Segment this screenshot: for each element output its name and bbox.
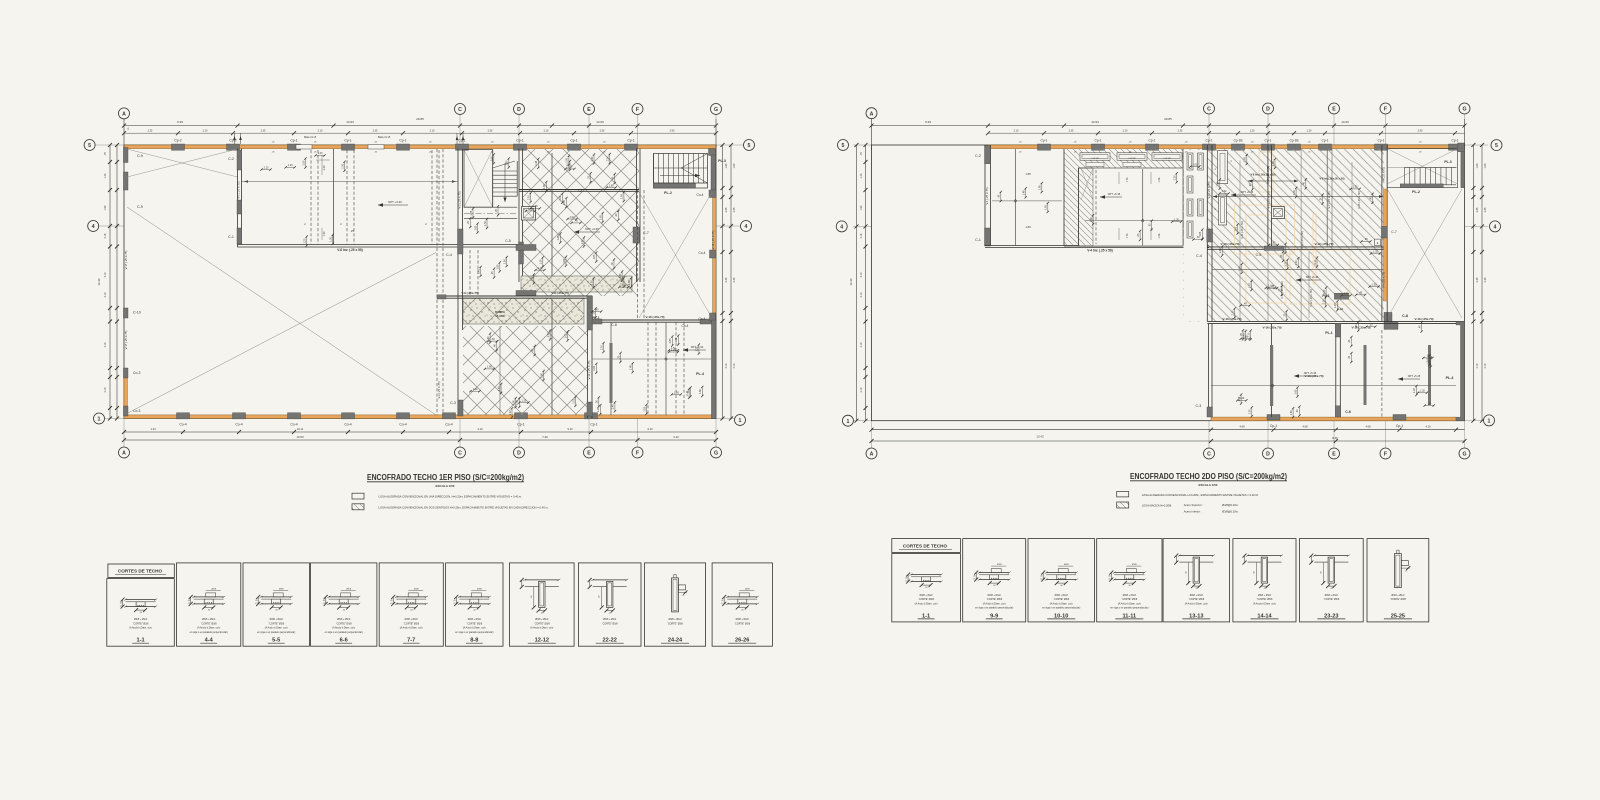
dimension clutter left plan middle [497,206,499,215]
svg-text:1.80: 1.80 [1476,163,1479,168]
svg-text:Cp-1: Cp-1 [1396,424,1403,428]
svg-text:.30: .30 [592,311,595,315]
svg-text:.40: .40 [532,348,535,352]
svg-text:1.02: 1.02 [1373,250,1378,253]
svg-text:(A Anclo b.Diam. cu/u: (A Anclo b.Diam. cu/u [265,627,289,630]
svg-text:23-23: 23-23 [1324,613,1338,619]
svg-text:.60: .60 [1254,571,1256,574]
svg-text:1.65: 1.65 [533,205,538,208]
right dimension lines [722,145,724,419]
svg-text:.30: .30 [1149,223,1152,227]
svg-text:.40: .40 [1296,409,1299,413]
left plan: ENCOFRADO TECHO 1ER PISO [95,115,745,448]
svg-text:Cp-1B: Cp-1B [1289,139,1298,143]
svg-text:C-2: C-2 [228,157,234,161]
svg-text:(A Anclo b.Diam. cu/u: (A Anclo b.Diam. cu/u [1253,602,1277,605]
svg-text:1.43: 1.43 [104,173,107,178]
svg-text:.40: .40 [1280,254,1283,258]
svg-text:.30: .30 [473,609,476,611]
svg-text:Cp-1: Cp-1 [1095,139,1102,143]
svg-text:25-25: 25-25 [1391,613,1405,619]
room bottom beam V-8 [238,244,521,246]
svg-text:2.90: 2.90 [670,129,675,132]
svg-text:1.02: 1.02 [1282,245,1285,250]
wall E x589 [587,296,589,418]
svg-text:1.20: 1.20 [1334,303,1337,308]
detail box 11-11 [1097,539,1162,622]
svg-text:1.48: 1.48 [612,404,615,409]
svg-text:1.80: 1.80 [543,183,546,188]
detail box 1-1 [107,579,175,647]
svg-text:1.48: 1.48 [1272,161,1275,166]
grid bubbles bottom (right plan) [866,448,877,459]
column Co-3 bottom [123,406,128,416]
room center joist line [333,149,335,244]
svg-text:26-26: 26-26 [735,638,749,644]
svg-text:Cp-1B: Cp-1B [1233,139,1242,143]
svg-text:A: A [122,112,126,118]
svg-text:1.50: 1.50 [1372,283,1377,286]
svg-text:.60: .60 [1320,571,1322,574]
svg-text:5: 5 [748,143,751,149]
svg-text:D: D [517,107,521,113]
svg-text:“CORTE” Ø3/8: “CORTE” Ø3/8 [1053,598,1069,601]
svg-text:“CORTE” Ø3/8: “CORTE” Ø3/8 [1323,598,1339,601]
svg-text:1.80: 1.80 [1484,163,1487,168]
svg-text:1.50: 1.50 [1323,289,1326,294]
svg-text:.30: .30 [491,338,495,341]
detail box 23-23 [1300,539,1364,622]
svg-text:2.10: 2.10 [1323,299,1326,304]
svg-text:V-7 (.25 X.75): V-7 (.25 X.75) [1327,191,1331,208]
beam top orange right plan [988,145,1458,149]
svg-text:.25: .25 [467,220,470,224]
svg-text:1.65: 1.65 [470,210,473,215]
svg-text:V-4 Inv. (.25 x 50): V-4 Inv. (.25 x 50) [1087,249,1112,253]
grid bubbles left (right plan) [838,140,849,151]
slab speckled band upper [521,276,632,292]
svg-text:PL-3: PL-3 [1444,160,1451,164]
column C-8 L-shape [1384,312,1398,329]
svg-text:2.10: 2.10 [600,344,603,349]
joist center line mid hatch [551,153,553,282]
svg-text:D: D [517,451,521,457]
detail box 13-13 [1163,539,1230,622]
svg-text:1.65: 1.65 [474,225,477,230]
svg-text:1.50: 1.50 [323,231,326,236]
svg-text:V-1 (.25 X.75): V-1 (.25 X.75) [985,187,989,204]
svg-text:2.05: 2.05 [733,207,736,212]
svg-text:E: E [1332,107,1336,113]
svg-text:Co-4: Co-4 [399,423,406,427]
svg-text:1.50: 1.50 [1293,189,1296,194]
svg-text:V-15 (.25 x .50): V-15 (.25 x .50) [1357,191,1361,209]
grid stem lines right plan [871,115,873,146]
slab hatch zone D (top band) [1064,149,1183,168]
stair landing bar right plan [1400,184,1443,188]
svg-text:1.26: 1.26 [1158,177,1161,182]
svg-text:15.35%: 15.35% [495,314,505,318]
svg-text:LOSA ALIGERADA CONVENCIONAL EN: LOSA ALIGERADA CONVENCIONAL EN UNA DIREC… [379,494,523,498]
wall C right plan [1206,145,1208,321]
svg-text:CORTES DE TECHO: CORTES DE TECHO [903,544,948,549]
svg-text:Ø3/8: Ø3/8 [414,588,420,590]
svg-text:PL-1: PL-1 [1325,331,1332,335]
svg-text:.05: .05 [187,600,190,602]
svg-text:D: D [1266,452,1270,458]
svg-text:Cp-1: Cp-1 [570,139,577,143]
left dimension lines right plan [856,145,858,421]
detail box 1-1 [892,554,961,622]
svg-text:5: 5 [88,143,91,149]
secondary beam line right plan [1212,268,1384,270]
svg-text:.15: .15 [187,603,190,605]
stair PL-2 top right [654,154,708,189]
svg-text:NPT +3.30: NPT +3.30 [585,227,599,231]
svg-text:PL-4: PL-4 [696,372,704,376]
svg-text:C: C [458,451,462,457]
schedule boxes inside hatch [1218,151,1228,184]
svg-text:.05: .05 [1040,576,1043,578]
svg-text:Ø3/8 + Ø1/2: Ø3/8 + Ø1/2 [1123,594,1137,597]
svg-text:1.80: 1.80 [1290,410,1293,415]
svg-text:.30: .30 [611,262,614,266]
detail box 22-22 [578,563,641,646]
svg-text:2.10: 2.10 [1174,175,1177,180]
svg-text:1.80: 1.80 [1090,217,1093,222]
svg-text:1.80: 1.80 [1039,185,1042,190]
room A center line [1014,149,1016,246]
svg-text:C-6: C-6 [1345,410,1351,414]
svg-text:Co-4: Co-4 [445,423,452,427]
svg-text:1.02: 1.02 [1192,163,1197,166]
svg-text:NPT +3.30: NPT +3.30 [388,200,402,204]
svg-text:.40: .40 [612,176,615,180]
svg-text:.05: .05 [1108,576,1111,578]
svg-text:.25: .25 [350,229,354,233]
outer boundary right plan [872,145,1465,421]
bottom dimension lines right plan [872,429,1465,431]
svg-text:Co-4: Co-4 [179,423,186,427]
svg-text:.05: .05 [119,603,122,605]
svg-text:V-13 (.25 X.75): V-13 (.25 X.75) [587,361,591,380]
svg-text:F: F [1384,107,1387,113]
svg-text:1.43: 1.43 [860,173,863,178]
svg-text:4: 4 [1494,225,1497,231]
detail box 8-8 [446,563,503,646]
white schedule boxes in hatch band [1080,153,1110,160]
svg-text:1: 1 [739,418,742,424]
svg-text:.15: .15 [1108,579,1111,581]
svg-text:.30: .30 [1128,585,1131,587]
svg-text:1.80: 1.80 [619,273,622,278]
svg-text:1.20: 1.20 [567,166,572,169]
svg-text:V-6 (.25 X.75): V-6 (.25 X.75) [1267,191,1271,208]
svg-text:1.50: 1.50 [674,391,679,394]
svg-text:V-5 (.25 X.75): V-5 (.25 X.75) [1207,181,1211,198]
svg-text:PL-3: PL-3 [718,159,726,163]
svg-text:2.10: 2.10 [264,166,269,169]
svg-text:Ø3/8: Ø3/8 [997,564,1003,566]
dashed partition x 437 [436,149,438,415]
svg-text:(A Anclo b.Diam. cu/u: (A Anclo b.Diam. cu/u [400,627,424,630]
svg-text:en viga o en paralelo perpendi: en viga o en paralelo perpendicular) [1110,607,1148,610]
svg-text:Cp-1: Cp-1 [290,139,297,143]
svg-text:1.20: 1.20 [1413,387,1416,392]
svg-text:1.20: 1.20 [318,152,323,155]
svg-text:Cp-2: Cp-2 [174,139,181,143]
svg-text:.25: .25 [1240,332,1243,336]
svg-text:.30: .30 [993,585,996,587]
grid bubbles top (right plan) [866,108,877,119]
svg-text:C-8: C-8 [611,323,617,327]
svg-text:Cp-1: Cp-1 [1378,139,1385,143]
svg-text:(A Anclo b.Diam. cu/u: (A Anclo b.Diam. cu/u [463,627,487,630]
svg-text:1.02: 1.02 [509,410,512,415]
svg-text:.60: .60 [531,596,533,599]
dashed joists mid strip [469,250,471,296]
slab cross-hatch lower middle [463,326,588,415]
svg-text:en viga o en paralelo perpendi: en viga o en paralelo perpendicular) [455,631,493,634]
svg-text:2.16: 2.16 [104,233,107,238]
svg-text:2.25: 2.25 [148,129,153,132]
svg-text:A: A [122,451,126,457]
svg-text:“CORTE” Ø3/8: “CORTE” Ø3/8 [918,598,934,601]
svg-text:1.50: 1.50 [491,156,494,161]
svg-text:14.60: 14.60 [1341,120,1349,124]
svg-text:LOSA MACIZA H=0.20M.: LOSA MACIZA H=0.20M. [1142,504,1172,508]
svg-text:1.20: 1.20 [304,238,307,243]
svg-text:Co-4: Co-4 [344,423,351,427]
svg-text:4.10: 4.10 [733,363,736,368]
svg-text:2.10: 2.10 [1014,129,1019,132]
svg-text:.15: .15 [322,603,325,605]
svg-text:Cp-1: Cp-1 [627,139,634,143]
svg-text:Co-4: Co-4 [699,251,706,255]
svg-text:1.65: 1.65 [498,385,501,390]
svg-text:2.10: 2.10 [318,129,323,132]
orange wall segment left edge [124,377,127,408]
svg-text:1.50: 1.50 [1239,265,1242,270]
svg-text:4: 4 [840,225,843,231]
svg-text:1 Ø 3/8: 1 Ø 3/8 [1128,158,1136,160]
svg-text:1.80: 1.80 [487,366,492,369]
svg-text:1.65: 1.65 [621,193,624,198]
svg-text:Ø3/8 + Ø1/2: Ø3/8 + Ø1/2 [1190,594,1204,597]
svg-text:(A Anclo b.Diam. cu/u: (A Anclo b.Diam. cu/u [1185,602,1209,605]
svg-text:Cp-1: Cp-1 [1452,139,1459,143]
svg-text:2.10: 2.10 [686,390,689,395]
svg-text:1.50: 1.50 [302,160,305,165]
svg-text:PL-2: PL-2 [664,191,672,195]
beam Vch top (orange) [124,145,716,149]
svg-text:2.10: 2.10 [527,194,530,199]
svg-text:D: D [1266,107,1270,113]
svg-text:.60: .60 [1185,571,1187,574]
svg-text:.25: .25 [608,612,611,614]
beam across y321 right plan [1207,320,1464,322]
svg-text:Ø3/8: Ø3/8 [477,588,483,590]
svg-text:.15: .15 [453,603,456,605]
empty-zone cross big left area [127,207,436,415]
landing line below stair [464,206,517,208]
svg-text:14.60: 14.60 [596,120,604,124]
stair landing beam [654,184,696,189]
svg-text:.30: .30 [410,609,413,611]
svg-text:.30: .30 [1060,585,1063,587]
svg-text:F: F [1384,452,1387,458]
svg-text:NPT +5.45: NPT +5.45 [1306,275,1319,279]
svg-text:1.65: 1.65 [669,338,672,343]
svg-text:.40: .40 [1359,292,1363,295]
svg-text:24-24: 24-24 [668,638,683,644]
svg-text:14.93: 14.93 [346,120,354,124]
svg-text:1.20: 1.20 [521,399,526,402]
svg-text:1.80: 1.80 [628,279,631,284]
svg-text:1.80: 1.80 [563,258,566,263]
svg-text:V-14 (.25 x .50): V-14 (.25 x .50) [1300,231,1304,249]
svg-text:1.80: 1.80 [725,163,728,168]
svg-text:29.85: 29.85 [1164,117,1172,121]
legend right: losa maciza [1117,502,1129,508]
svg-text:1.65: 1.65 [593,365,596,370]
riser arrows at wall tops [234,133,236,144]
svg-text:.05: .05 [453,600,456,602]
svg-text:1: 1 [1488,419,1491,425]
svg-text:1.65: 1.65 [497,264,500,269]
svg-text:.15: .15 [721,603,724,605]
svg-text:.30: .30 [925,587,928,589]
svg-text:1.80: 1.80 [609,184,614,187]
svg-text:1.50: 1.50 [540,259,543,264]
svg-text:10.11: 10.11 [297,427,304,431]
svg-text:Ø3/8 + Ø1/2: Ø3/8 + Ø1/2 [337,618,351,621]
svg-text:NPT +6.35: NPT +6.35 [1108,192,1121,196]
svg-text:2.35: 2.35 [488,129,493,132]
svg-text:G: G [714,451,718,457]
column C-9 lower [123,172,128,190]
svg-text:1.48: 1.48 [535,160,538,165]
svg-text:2.10: 2.10 [1248,332,1251,337]
svg-text:C-3: C-3 [1196,404,1202,408]
svg-text:2.35: 2.35 [1484,277,1487,282]
svg-text:2.10: 2.10 [1314,259,1317,264]
svg-text:V-9 (.25x.75): V-9 (.25x.75) [461,291,478,295]
svg-text:Co-3: Co-3 [133,371,140,375]
svg-text:14.93: 14.93 [1091,120,1099,124]
svg-text:.30: .30 [1426,355,1430,358]
svg-text:1 Ø 3/8: 1 Ø 3/8 [1163,158,1171,160]
svg-text:V-10 (.25 X.75): V-10 (.25 X.75) [1266,166,1270,184]
svg-text:Ø3/8 + Ø1/2: Ø3/8 + Ø1/2 [603,618,617,621]
svg-text:.40: .40 [574,220,578,223]
svg-text:“CORTE” Ø3/8: “CORTE” Ø3/8 [1121,598,1137,601]
svg-text:Cp-1: Cp-1 [1322,139,1329,143]
svg-text:CORTES DE TECHO: CORTES DE TECHO [118,569,163,574]
svg-text:1.20: 1.20 [591,156,594,161]
svg-text:1.50: 1.50 [528,208,533,211]
svg-text:(A Anclo b.Diam. cu/u: (A Anclo b.Diam. cu/u [129,627,153,630]
svg-text:G: G [1462,107,1466,113]
svg-text:.30: .30 [596,400,599,404]
detail box 5-5 [243,563,309,646]
right dimension lines right plan [1472,145,1474,421]
svg-text:2.10: 2.10 [1344,292,1349,295]
svg-text:1.80: 1.80 [643,406,646,411]
svg-text:(A Anclo b.Diam. cu/u: (A Anclo b.Diam. cu/u [983,602,1007,605]
svg-text:1.80: 1.80 [1217,181,1220,186]
svg-text:(A Anclo b.Diam. cu/u: (A Anclo b.Diam. cu/u [1050,602,1074,605]
svg-text:“CORTE” Ø3/8: “CORTE” Ø3/8 [667,622,683,625]
grid bubbles bottom (left plan) [119,447,130,458]
svg-text:1.02: 1.02 [581,239,584,244]
svg-text:1.80: 1.80 [513,400,516,405]
svg-text:1.50: 1.50 [484,220,487,225]
svg-text:1.80: 1.80 [473,388,478,391]
stair mid treads [493,170,518,172]
svg-text:V-11 (.25 x .50): V-11 (.25 x .50) [1240,221,1244,239]
svg-text:1.80: 1.80 [699,388,702,393]
svg-text:“CORTE” Ø3/8: “CORTE” Ø3/8 [403,622,419,625]
svg-text:2.10: 2.10 [430,129,435,132]
svg-text:4.10: 4.10 [1425,425,1431,429]
svg-text:NPT +5.45: NPT +5.45 [1408,374,1421,378]
svg-text:1.65: 1.65 [1199,231,1202,236]
svg-text:.30: .30 [1348,355,1351,359]
svg-text:ESCALA 1/50: ESCALA 1/50 [1199,483,1218,487]
svg-text:.25: .25 [617,355,620,359]
svg-text:1.65: 1.65 [1234,226,1237,231]
beam V-10 left plan [437,295,592,297]
svg-text:.15: .15 [255,603,258,605]
svg-text:1.80: 1.80 [540,372,543,377]
svg-text:1.20: 1.20 [288,164,293,167]
svg-text:1.02: 1.02 [570,216,575,219]
svg-text:1.48: 1.48 [630,365,633,370]
PL-1 gray block [1334,293,1348,299]
grid bubbles right (left plan) [744,140,755,151]
svg-text:.25: .25 [682,595,685,597]
svg-text:C-2: C-2 [975,154,981,158]
beam bottom orange right plan [1211,417,1456,421]
svg-text:1.65: 1.65 [1294,389,1297,394]
svg-text:1.20: 1.20 [322,165,326,171]
wall C vertical (V-2) [457,149,459,417]
thick wall G bottom right [712,320,717,419]
dimension clutter right plan bottom rooms [1245,331,1247,340]
svg-text:1.48: 1.48 [557,235,560,240]
right plan: ENCOFRADO TECHO 2DO PISO [853,115,1488,450]
svg-text:1.65: 1.65 [1244,156,1247,161]
svg-text:E: E [1332,452,1336,458]
svg-text:.15: .15 [1040,579,1043,581]
svg-text:G: G [1462,452,1466,458]
svg-text:C-7: C-7 [1391,230,1397,234]
detail box 6-6 [311,563,377,646]
big slab hatch right plan [1183,149,1384,322]
svg-text:1.65: 1.65 [477,268,480,273]
svg-text:“CORTE” Ø3/8: “CORTE” Ø3/8 [986,598,1002,601]
svg-text:C-1: C-1 [228,235,234,239]
columns Co-4 on bottom beam [177,413,190,419]
svg-text:Cp-1: Cp-1 [399,139,406,143]
svg-text:“CORTE” Ø3/8: “CORTE” Ø3/8 [268,622,284,625]
detail box 26-26 [712,563,772,646]
svg-text:2.10: 2.10 [104,387,107,392]
svg-text:1.65: 1.65 [1045,204,1048,209]
svg-text:.40: .40 [1348,339,1351,343]
svg-text:C-4: C-4 [1196,254,1202,258]
